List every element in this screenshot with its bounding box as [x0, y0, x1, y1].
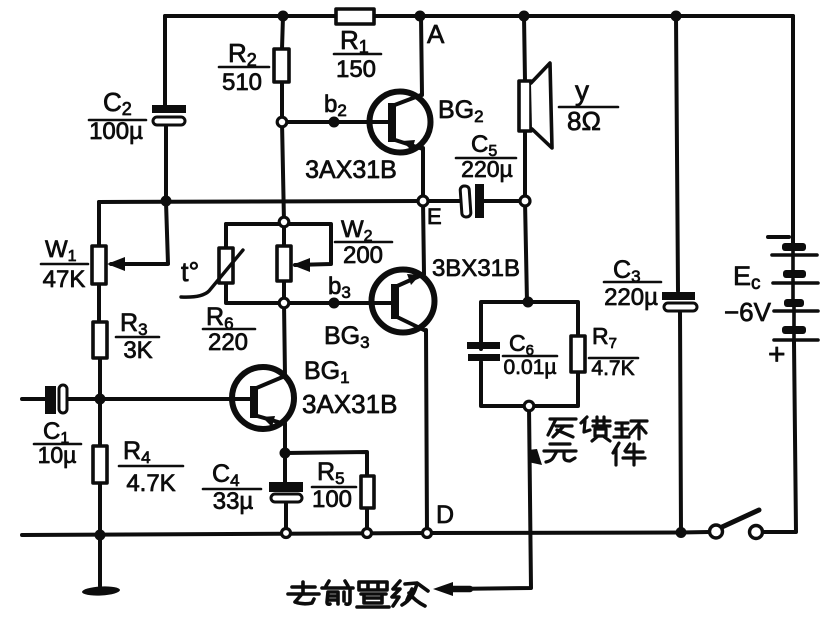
wire bias column R2 to BG1 collector [282, 122, 285, 376]
wire feedback output down and to preamp arrow [448, 406, 531, 589]
wire R2 branch vertical [282, 16, 283, 122]
bar W1 [41, 263, 88, 266]
svg-text:R4: R4 [123, 437, 151, 467]
svg-text:C6: C6 [509, 330, 534, 359]
svg-text:D: D [436, 501, 454, 529]
wire BG1 base line [100, 397, 250, 401]
resistor R4 4.7K [93, 446, 107, 483]
svg-text:W1: W1 [45, 236, 77, 265]
node speaker top [519, 11, 530, 22]
svg-text:R2: R2 [228, 38, 257, 70]
node bias bottom [279, 298, 289, 308]
fraction bars [34, 54, 661, 489]
wire W1 wiper from C2 node [111, 202, 168, 264]
potentiometer W2 wiper arrow [292, 258, 310, 272]
capacitor C2 100u [152, 105, 186, 125]
svg-text:0.01µ: 0.01µ [504, 356, 557, 379]
wire C1 leads [22, 397, 100, 401]
svg-text:200: 200 [343, 242, 383, 269]
svg-text:+: + [768, 338, 786, 371]
wire b3 line [284, 301, 391, 305]
node E [418, 196, 428, 206]
resistor R7 4.7K [571, 336, 585, 372]
svg-text:3AX31B: 3AX31B [305, 156, 397, 184]
hanzi jian 件 [613, 443, 645, 465]
svg-text:Ec: Ec [733, 261, 761, 294]
svg-text:−6V: −6V [724, 297, 772, 327]
node b3 [329, 298, 340, 309]
resistor R1 150 [336, 9, 374, 24]
node BG1 emitter [280, 448, 291, 459]
svg-text:W2: W2 [341, 216, 373, 245]
node ground rail left [95, 530, 106, 541]
svg-text:A: A [427, 19, 445, 49]
svg-text:R3: R3 [120, 309, 148, 339]
node A dot [415, 11, 426, 22]
potentiometer W1 wiper arrow [107, 257, 125, 271]
bar C6 [503, 355, 557, 358]
node feedback bottom [524, 401, 534, 411]
svg-text:33µ: 33µ [213, 488, 254, 515]
svg-text:220µ: 220µ [604, 284, 658, 311]
bar R5 [312, 486, 356, 489]
bar C3 [604, 281, 661, 284]
bar R3 [116, 336, 159, 339]
svg-text:510: 510 [222, 69, 262, 96]
capacitor C4 33u [269, 482, 303, 502]
svg-text:b3: b3 [328, 273, 351, 302]
bar R2 [219, 66, 269, 69]
svg-text:R5: R5 [317, 458, 345, 488]
capacitor C5 220u [460, 184, 484, 218]
node D [423, 529, 432, 538]
potentiometer W2 200 [277, 246, 291, 281]
node C4 bottom [282, 529, 291, 538]
hanzi qian 前 [322, 581, 353, 604]
wire E-line horizontal [99, 201, 423, 202]
transistor BG3 3BX31B [368, 270, 435, 333]
hanzi yuan 元 [544, 444, 576, 462]
node feedback top [523, 297, 534, 308]
wire ground lead [98, 535, 102, 586]
hanzi huan 环 [614, 421, 647, 439]
node R5 bottom [363, 529, 372, 538]
node R2/b2 [277, 117, 287, 127]
hanzi qu 去 [288, 582, 319, 604]
bar C5 [456, 157, 516, 160]
svg-text:150: 150 [336, 56, 376, 83]
svg-text:220µ: 220µ [461, 156, 513, 182]
thermistor R6 body [219, 248, 233, 283]
svg-text:8Ω: 8Ω [567, 106, 601, 136]
svg-text:220: 220 [208, 329, 248, 356]
svg-text:10µ: 10µ [38, 442, 77, 468]
wire battery branch [763, 16, 796, 532]
node b2 [329, 117, 340, 128]
bar C4 [203, 488, 261, 491]
node C3 top [671, 11, 682, 22]
speaker Y 8ohm [519, 63, 552, 148]
hanzi ji 级 [392, 581, 428, 606]
wire W2 top bracket [226, 224, 331, 265]
transistor BG1 3AX31B [232, 367, 294, 429]
open nodes [277, 117, 534, 537]
hanzi kui 馈 [581, 417, 610, 441]
label - battery [768, 235, 789, 239]
svg-text:R7: R7 [592, 323, 617, 352]
svg-text:3AX31B: 3AX31B [302, 389, 397, 419]
svg-text:BG2: BG2 [438, 96, 484, 126]
arrow to preamp (left) [433, 582, 453, 596]
wire top rail [165, 14, 793, 18]
wire left bias column W1-R3-R4 [99, 202, 100, 535]
resistor R5 100 [361, 476, 374, 508]
svg-text:BG1: BG1 [304, 357, 350, 387]
potentiometer W1 47K [92, 246, 106, 284]
node bias top [279, 217, 289, 227]
transistor BG2 3AX31B [367, 92, 431, 153]
svg-text:4.7K: 4.7K [591, 357, 634, 380]
wire R5 branch [285, 452, 367, 533]
wire bottom rail [22, 532, 709, 535]
ground symbol [82, 586, 120, 597]
node speaker/C5 [520, 196, 530, 206]
bar C1 [34, 443, 81, 446]
bar R4 [119, 465, 183, 468]
wire C5 leads [423, 199, 525, 203]
arrow on feedback line [528, 449, 542, 465]
svg-text:t°: t° [181, 257, 199, 287]
wire W1 box span [97, 246, 101, 284]
svg-text:C2: C2 [103, 87, 132, 119]
wire BG2/BG3 vertical A-E-D [421, 16, 427, 533]
svg-text:E: E [427, 204, 442, 229]
resistor R2 510 [274, 49, 289, 82]
wire b2 line [282, 120, 388, 124]
svg-text:BG3: BG3 [324, 322, 370, 352]
svg-text:100: 100 [312, 486, 352, 513]
capacitor C6 0.01u plates [467, 342, 500, 361]
svg-text:47K: 47K [43, 266, 86, 293]
svg-text:3K: 3K [123, 337, 152, 364]
svg-text:100µ: 100µ [89, 118, 143, 145]
thermistor R6 diagonal + foot [181, 250, 243, 297]
wire feedback box [481, 302, 578, 406]
wire C3 branch [676, 16, 681, 533]
battery Ec cells [772, 243, 818, 342]
capacitor C3 220u [662, 292, 697, 311]
wire BG1 emitter to C4/R5 [285, 423, 286, 533]
svg-text:b2: b2 [324, 91, 347, 120]
node C1/R3/R4 [95, 394, 106, 405]
switch S [710, 510, 763, 539]
wire thermistor branch [226, 224, 284, 303]
svg-text:R1: R1 [340, 25, 369, 57]
bar y [559, 106, 618, 109]
wire speaker branch [524, 16, 527, 302]
bar R7 [589, 357, 638, 360]
svg-text:y: y [575, 75, 589, 106]
node C3 bottom [676, 527, 687, 538]
hanzi zhi 置 [357, 582, 389, 607]
hanzi fan 反 [548, 419, 576, 437]
wire C2 branch left [165, 16, 166, 201]
bar C2 [89, 119, 146, 122]
node R2 top [278, 11, 289, 22]
svg-text:C4: C4 [212, 460, 240, 490]
capacitor C1 10u [45, 385, 67, 414]
bar W2 [335, 241, 392, 244]
svg-text:3BX31B: 3BX31B [432, 255, 520, 282]
resistor R3 3K [93, 322, 107, 358]
svg-text:4.7K: 4.7K [126, 470, 175, 497]
bar R1 [334, 53, 381, 56]
node C2/wiper [161, 196, 172, 207]
bar R6 [203, 328, 255, 331]
